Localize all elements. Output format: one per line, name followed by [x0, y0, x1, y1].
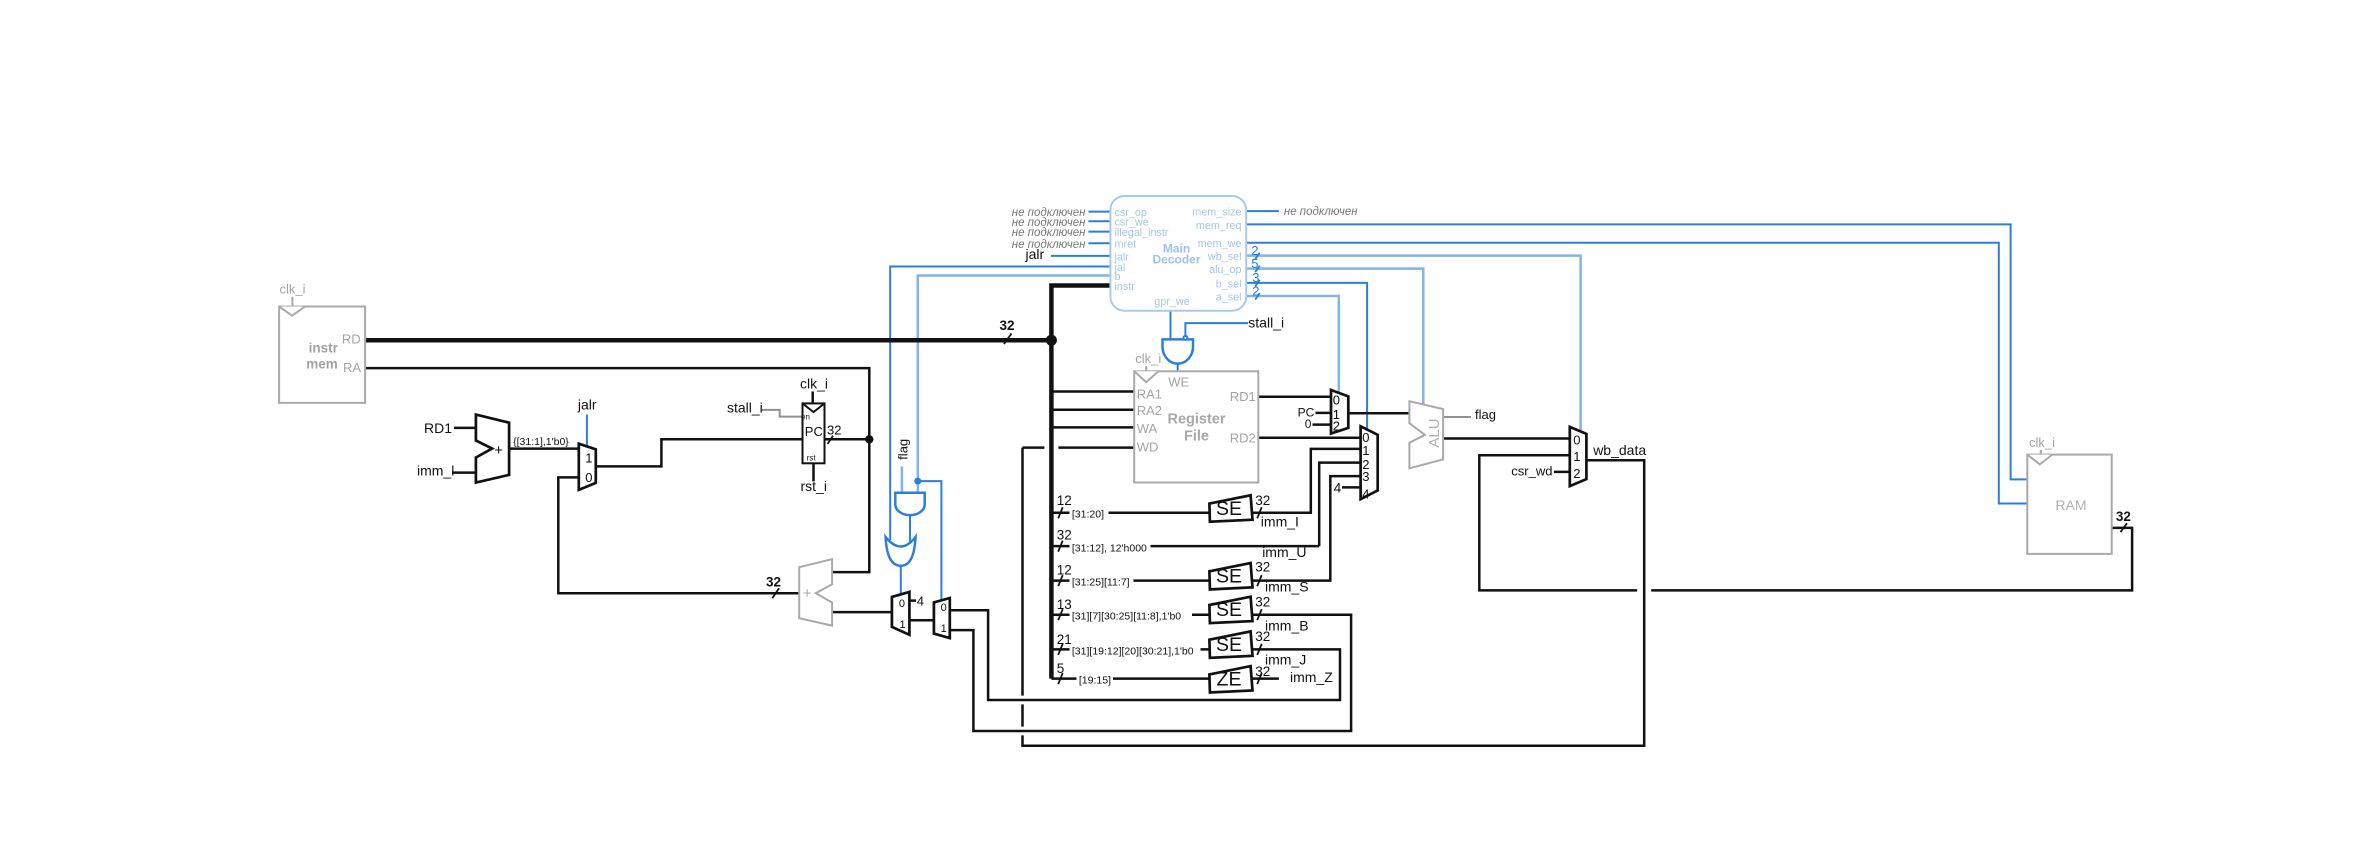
svg-text:2: 2	[1573, 466, 1580, 481]
svg-text:32: 32	[766, 575, 781, 590]
svg-text:[31:12], 12'h000: [31:12], 12'h000	[1072, 542, 1147, 554]
svg-text:не подключен: не подключен	[1284, 206, 1358, 218]
svg-text:Register: Register	[1167, 411, 1225, 427]
svg-text:instr: instr	[1115, 281, 1136, 293]
svg-text:stall_i: stall_i	[727, 399, 763, 415]
svg-text:instr: instr	[309, 341, 339, 356]
svg-text:imm_Z: imm_Z	[1290, 669, 1333, 685]
svg-text:1: 1	[900, 619, 906, 631]
svg-text:illegal_instr: illegal_instr	[1115, 227, 1169, 239]
svg-text:3: 3	[1362, 469, 1369, 484]
svg-text:+: +	[494, 442, 503, 459]
svg-text:5: 5	[1251, 256, 1258, 271]
svg-text:1: 1	[1362, 443, 1369, 458]
svg-text:wb_sel: wb_sel	[1207, 251, 1242, 263]
svg-text:0: 0	[899, 598, 905, 610]
svg-text:1: 1	[941, 623, 947, 635]
svg-text:RD1: RD1	[1230, 389, 1256, 404]
svg-text:mem_size: mem_size	[1192, 207, 1241, 219]
svg-text:PC: PC	[805, 424, 823, 439]
svg-text:File: File	[1184, 429, 1209, 445]
svg-text:{[31:1],1'b0}: {[31:1],1'b0}	[513, 436, 569, 448]
svg-text:clk_i: clk_i	[1135, 351, 1161, 366]
svg-text:a_sel: a_sel	[1216, 291, 1242, 303]
svg-text:gpr_we: gpr_we	[1154, 296, 1189, 308]
svg-text:SE: SE	[1216, 498, 1242, 520]
svg-text:WE: WE	[1168, 375, 1189, 390]
svg-text:0: 0	[1305, 417, 1312, 431]
svg-text:imm_I: imm_I	[1261, 513, 1299, 529]
svg-text:[31][7][30:25][11:8],1'b0: [31][7][30:25][11:8],1'b0	[1072, 611, 1181, 623]
svg-text:0: 0	[1573, 433, 1580, 448]
svg-text:en: en	[801, 413, 810, 422]
svg-text:alu_op: alu_op	[1209, 264, 1241, 276]
svg-text:RA: RA	[343, 360, 361, 375]
svg-text:clk_i: clk_i	[800, 376, 828, 392]
svg-text:rst_i: rst_i	[801, 478, 827, 494]
svg-text:flag: flag	[1475, 407, 1496, 422]
svg-text:не подключен: не подключен	[1012, 239, 1086, 251]
svg-text:32: 32	[2116, 509, 2131, 524]
svg-text:не подключен: не подключен	[1012, 227, 1086, 239]
svg-text:SE: SE	[1216, 566, 1242, 588]
svg-text:RD: RD	[342, 332, 361, 347]
svg-text:[31][19:12][20][30:21],1'b0: [31][19:12][20][30:21],1'b0	[1072, 645, 1194, 657]
svg-text:32: 32	[827, 423, 841, 438]
svg-text:mem_req: mem_req	[1196, 220, 1242, 232]
svg-text:imm_S: imm_S	[1265, 579, 1309, 595]
svg-text:1: 1	[585, 450, 592, 465]
svg-text:imm_J: imm_J	[1265, 651, 1306, 667]
svg-text:0: 0	[941, 602, 947, 614]
svg-text:mem: mem	[306, 357, 338, 372]
svg-text:WD: WD	[1137, 440, 1159, 455]
svg-text:RA1: RA1	[1137, 386, 1162, 401]
svg-text:32: 32	[1255, 594, 1270, 609]
svg-text:2: 2	[1333, 419, 1340, 434]
svg-text:32: 32	[1057, 528, 1072, 543]
svg-text:0: 0	[1333, 393, 1340, 408]
svg-text:RA2: RA2	[1137, 403, 1162, 418]
svg-text:32: 32	[1255, 629, 1270, 644]
svg-text:RD2: RD2	[1230, 431, 1256, 446]
svg-text:32: 32	[1255, 493, 1270, 508]
svg-text:12: 12	[1057, 562, 1072, 577]
svg-text:imm_l: imm_l	[417, 463, 454, 479]
svg-text:mem_we: mem_we	[1198, 238, 1242, 250]
svg-text:csr_wd: csr_wd	[1511, 464, 1552, 479]
svg-text:2: 2	[1252, 283, 1259, 298]
svg-text:jalr: jalr	[1025, 246, 1045, 262]
svg-text:SE: SE	[1216, 634, 1242, 656]
svg-text:RAM: RAM	[2055, 497, 2086, 513]
svg-text:4: 4	[1334, 481, 1342, 496]
svg-text:Decoder: Decoder	[1152, 253, 1200, 267]
svg-text:b_sel: b_sel	[1216, 278, 1242, 290]
svg-text:4: 4	[1362, 487, 1369, 502]
svg-text:5: 5	[1057, 661, 1065, 676]
svg-text:12: 12	[1057, 493, 1072, 508]
svg-text:1: 1	[1573, 449, 1580, 464]
svg-text:imm_U: imm_U	[1262, 544, 1306, 560]
svg-text:clk_i: clk_i	[280, 282, 306, 297]
svg-text:wb_data: wb_data	[1592, 442, 1646, 458]
svg-text:SE: SE	[1216, 599, 1242, 621]
svg-text:13: 13	[1057, 597, 1072, 612]
svg-text:imm_B: imm_B	[1265, 618, 1309, 634]
svg-text:RD1: RD1	[424, 420, 452, 436]
svg-text:clk_i: clk_i	[2029, 435, 2055, 450]
svg-text:+: +	[803, 585, 812, 602]
svg-text:rst: rst	[807, 454, 817, 463]
svg-text:4: 4	[917, 594, 924, 609]
svg-text:ZE: ZE	[1217, 669, 1242, 691]
svg-text:32: 32	[1255, 664, 1270, 679]
svg-text:ALU: ALU	[1426, 418, 1443, 447]
svg-text:[31:25][11:7]: [31:25][11:7]	[1072, 577, 1130, 589]
svg-text:32: 32	[1255, 560, 1270, 575]
svg-text:32: 32	[1000, 318, 1015, 333]
svg-text:WA: WA	[1137, 421, 1158, 436]
svg-text:[19:15]: [19:15]	[1079, 675, 1111, 687]
svg-text:jalr: jalr	[577, 397, 597, 413]
svg-text:0: 0	[585, 470, 592, 485]
svg-text:[31:20]: [31:20]	[1072, 509, 1104, 521]
svg-text:mret: mret	[1115, 239, 1137, 251]
svg-text:flag: flag	[896, 439, 911, 460]
svg-text:21: 21	[1057, 632, 1072, 647]
svg-text:stall_i: stall_i	[1248, 314, 1284, 330]
